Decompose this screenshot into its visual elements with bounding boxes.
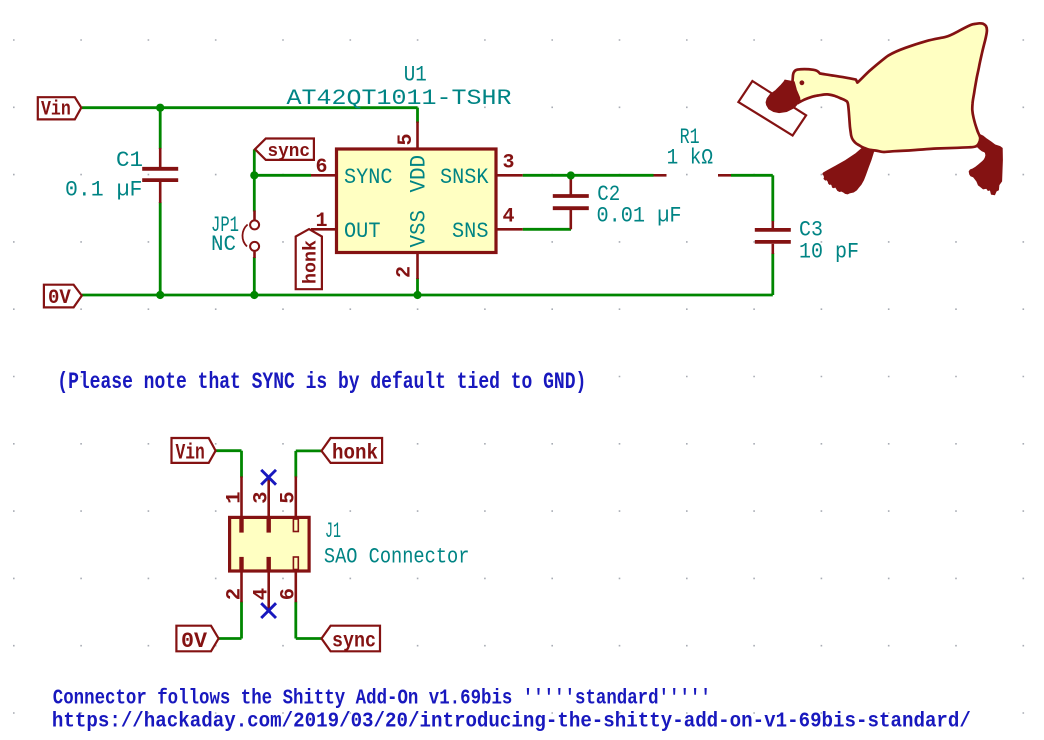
svg-text:(Please note that SYNC is by d: (Please note that SYNC is by default tie…	[57, 369, 586, 395]
svg-text:SNS: SNS	[452, 218, 489, 244]
svg-text:4: 4	[251, 588, 274, 600]
svg-text:C1: C1	[116, 147, 143, 173]
svg-text:1: 1	[316, 210, 328, 233]
svg-text:4: 4	[503, 206, 515, 229]
svg-text:6: 6	[316, 156, 328, 179]
svg-text:10 pF: 10 pF	[799, 239, 859, 265]
svg-text:Connector follows the Shitty A: Connector follows the Shitty Add-On v1.6…	[53, 687, 711, 711]
svg-text:VDD: VDD	[406, 155, 432, 193]
svg-text:OUT: OUT	[344, 218, 381, 244]
svg-text:J1: J1	[325, 518, 341, 544]
svg-text:6: 6	[278, 588, 301, 600]
svg-text:1 kΩ: 1 kΩ	[667, 145, 713, 171]
svg-text:2: 2	[223, 588, 246, 600]
svg-text:3: 3	[503, 152, 515, 175]
svg-text:NC: NC	[211, 231, 236, 257]
svg-text:0.1 µF: 0.1 µF	[65, 177, 142, 203]
svg-text:5: 5	[395, 133, 418, 145]
svg-text:VSS: VSS	[406, 210, 432, 248]
svg-text:0V: 0V	[48, 287, 71, 310]
svg-text:sync: sync	[268, 142, 311, 162]
svg-text:honk: honk	[332, 442, 378, 465]
svg-text:1: 1	[223, 491, 246, 503]
svg-text:sync: sync	[332, 631, 376, 654]
svg-text:SAO Connector: SAO Connector	[324, 544, 470, 570]
svg-text:0.01 µF: 0.01 µF	[597, 203, 682, 229]
svg-text:5: 5	[278, 491, 301, 503]
svg-text:3: 3	[251, 491, 274, 503]
svg-text:SYNC: SYNC	[344, 164, 393, 190]
svg-text:Vin: Vin	[176, 440, 205, 465]
svg-text:honk: honk	[301, 240, 321, 284]
svg-text:0V: 0V	[181, 629, 208, 654]
svg-text:SNSK: SNSK	[440, 164, 489, 190]
svg-text:https://hackaday.com/2019/03/2: https://hackaday.com/2019/03/20/introduc…	[52, 710, 971, 734]
svg-text:2: 2	[394, 266, 417, 278]
svg-text:AT42QT1011-TSHR: AT42QT1011-TSHR	[287, 85, 512, 111]
svg-text:Vin: Vin	[41, 98, 71, 121]
